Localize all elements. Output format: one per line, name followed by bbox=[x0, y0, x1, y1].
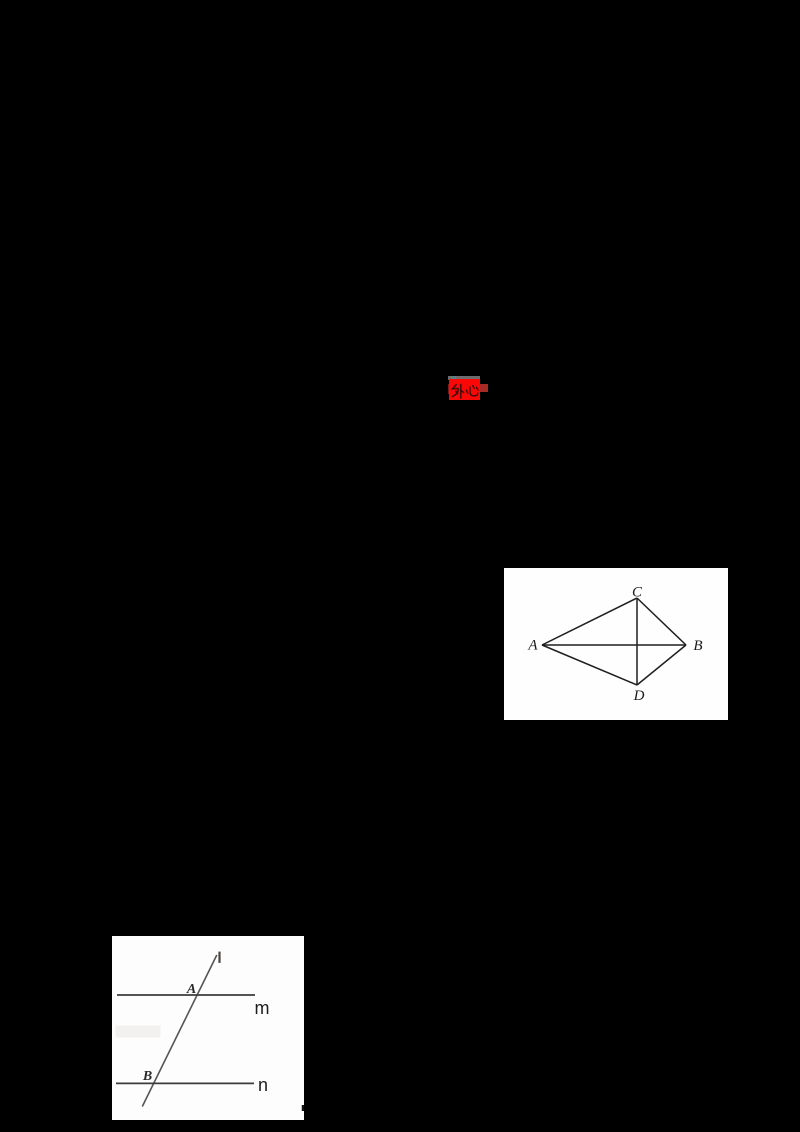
faint scan smudge bbox=[116, 1026, 161, 1038]
highlighted term block (gray bar above red highlight) bbox=[448, 376, 480, 380]
svg-text:B: B bbox=[693, 638, 702, 654]
line l (transversal) bbox=[142, 955, 217, 1107]
red highlight block bbox=[449, 379, 480, 400]
心 bbox=[466, 390, 467, 393]
外 right part 卜 bbox=[460, 384, 462, 398]
teal tinted left segment of gray bar bbox=[451, 376, 456, 379]
svg-text:B: B bbox=[142, 1069, 152, 1084]
red sliver left of highlight bbox=[448, 384, 450, 394]
dark notch of the small mark bbox=[302, 1105, 304, 1111]
wire side BD bbox=[637, 645, 686, 685]
wire diagonal CD bbox=[636, 598, 638, 685]
svg-text:m: m bbox=[255, 998, 270, 1018]
text 外心 drawn as SVG strokes bbox=[449, 379, 480, 400]
svg-text:A: A bbox=[527, 638, 538, 654]
kite figure white panel bbox=[504, 568, 728, 720]
wire diagonal AB bbox=[542, 644, 686, 646]
label l bbox=[218, 952, 220, 963]
line n bbox=[116, 1082, 254, 1084]
line m bbox=[117, 994, 255, 996]
svg-text:D: D bbox=[633, 688, 645, 704]
small gray mark at right edge of bottom panel bbox=[301, 1105, 303, 1112]
parallel lines figure white panel bbox=[112, 936, 304, 1120]
svg-text:A: A bbox=[186, 982, 196, 997]
wire side CB bbox=[637, 598, 686, 645]
外 left part 夕 bbox=[452, 385, 456, 390]
svg-text:C: C bbox=[632, 584, 643, 600]
dark red square right of highlight bbox=[480, 384, 488, 392]
wire side AC bbox=[542, 598, 637, 645]
svg-text:n: n bbox=[258, 1075, 268, 1095]
wire side DA bbox=[542, 645, 637, 685]
